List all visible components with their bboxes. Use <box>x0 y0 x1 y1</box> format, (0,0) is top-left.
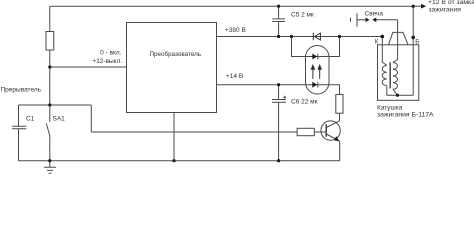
resistor R1 <box>46 32 54 51</box>
resistor R2 collector <box>336 95 343 114</box>
node arrester branch on +380V rail <box>290 35 293 38</box>
svg-text:+12 В от замка: +12 В от замка <box>428 0 474 6</box>
capacitor C6 polarity plus <box>283 96 286 99</box>
coil primary winding <box>382 66 387 86</box>
wire top rail +12V <box>50 5 422 7</box>
node C5 on top rail <box>277 5 280 8</box>
wire +380V rail <box>217 36 383 38</box>
wire primary bottom lead <box>386 86 388 96</box>
arrow arrester light 2 <box>318 65 321 79</box>
svg-text:+380 В: +380 В <box>225 27 246 34</box>
svg-text:К: К <box>375 39 379 46</box>
node coil secondary common <box>396 94 399 97</box>
spark gap left wire <box>357 19 366 21</box>
capacitor C5 top lead <box>278 6 280 19</box>
diode VD3 wire inside envelope <box>306 84 330 86</box>
arrester envelope VS1 <box>306 46 330 95</box>
coil secondary winding <box>393 63 398 90</box>
coil core <box>389 62 391 88</box>
node B lead on top rail <box>412 5 415 8</box>
diode VD2 wire inside envelope <box>306 56 330 58</box>
node terminal B <box>411 36 415 40</box>
wire secondary bottom link <box>393 89 398 95</box>
diode VD2 triangle <box>312 54 317 60</box>
wire converter bottom tap <box>173 113 175 161</box>
node C5 on +380V rail <box>277 35 280 38</box>
wire breaker bus horizontal <box>19 104 92 106</box>
diode VD1 triangle pointing left <box>313 33 320 40</box>
capacitor C6 plates <box>272 100 286 103</box>
node converter input junction <box>48 65 51 68</box>
wire +14V rail <box>217 84 306 86</box>
wire terminal B lead <box>412 6 414 95</box>
svg-text:C1: C1 <box>26 116 35 123</box>
svg-text:+14 В: +14 В <box>226 73 243 80</box>
capacitor C5 plates <box>272 19 285 22</box>
diode VD3 cathode bar <box>317 82 319 88</box>
node terminal K <box>381 35 385 39</box>
ground <box>44 161 56 174</box>
ignition coil case <box>378 45 419 101</box>
wire arrester bottom right link <box>329 85 340 95</box>
wire arrester top right link <box>329 37 340 57</box>
ignition coil HV tower trapezoid <box>389 32 409 44</box>
converter box U1 <box>127 23 217 113</box>
capacitor C1 bottom lead <box>18 129 20 161</box>
node C6 on bottom rail <box>277 159 280 162</box>
arrow spark gap right <box>372 18 376 23</box>
wire arrester branch left <box>292 37 306 57</box>
svg-text:С6 22 мк: С6 22 мк <box>291 99 318 106</box>
transistor VT1 circle <box>321 121 340 140</box>
node converter tap on bottom rail <box>172 159 175 162</box>
capacitor C6 top lead <box>278 85 280 100</box>
wire left branch vertical upper <box>49 6 51 31</box>
spark gap large electrode <box>356 13 358 26</box>
diode VD3 triangle <box>312 82 317 88</box>
spark gap right wire <box>376 19 398 21</box>
svg-text:Преобразователь: Преобразователь <box>150 50 202 58</box>
arrow spark gap left <box>366 18 370 23</box>
arrow +12V feed <box>421 4 426 9</box>
wire terminal K lead <box>382 37 387 66</box>
switch SA1 bottom lead <box>49 137 51 161</box>
svg-text:Прерыватель: Прерыватель <box>1 86 42 93</box>
svg-text:Б: Б <box>415 39 419 46</box>
transistor VT1 base bar <box>325 124 327 137</box>
wire secondary top link <box>393 60 398 63</box>
svg-text:0 - вкл.: 0 - вкл. <box>100 50 122 57</box>
capacitor C1 top lead <box>18 105 20 126</box>
switch SA1 blade <box>46 124 50 137</box>
transistor VT1 emitter <box>326 134 339 161</box>
svg-text:SA1: SA1 <box>53 116 66 123</box>
node breaker bus junction <box>48 103 51 106</box>
diode VD2 cathode bar <box>317 54 319 60</box>
spark gap small electrode <box>350 18 352 22</box>
node C6 on +14V rail <box>277 83 280 86</box>
wire left branch vertical lower <box>49 50 51 122</box>
wire base lead <box>314 131 325 133</box>
node ground junction <box>48 159 51 162</box>
wire collector lead <box>326 113 339 127</box>
wire node to converter input <box>50 66 127 68</box>
node arrester top link on +380V rail <box>338 35 341 38</box>
capacitor C6 bottom lead <box>278 102 280 160</box>
svg-text:зажигания Б-117А: зажигания Б-117А <box>377 112 434 119</box>
svg-text:зажигания: зажигания <box>428 6 461 13</box>
capacitor C1 plates <box>12 126 26 129</box>
capacitor C5 bottom lead <box>278 22 280 37</box>
wire HV lead down to coil <box>397 20 399 60</box>
svg-text:+12-выкл.: +12-выкл. <box>92 58 122 65</box>
svg-text:С5 2 мк: С5 2 мк <box>291 11 314 18</box>
arrow arrester light 1 <box>311 65 314 79</box>
wire coil common bottom <box>387 94 413 96</box>
wire bottom rail <box>19 160 340 162</box>
resistor R3 base <box>297 128 314 135</box>
svg-text:Свеча: Свеча <box>365 10 384 17</box>
wire breaker bus to base <box>91 105 297 132</box>
transistor VT1 emitter arrowhead <box>334 136 340 141</box>
